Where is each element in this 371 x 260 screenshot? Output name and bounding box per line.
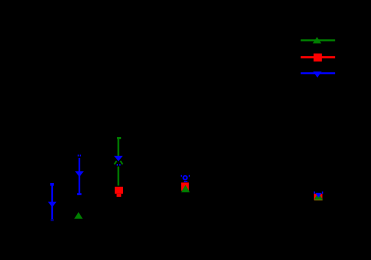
C red square marker bbox=[115, 187, 123, 194]
legend blue triangle-down marker bbox=[313, 72, 321, 78]
D blue x-cap right bbox=[189, 175, 190, 177]
C green bar upper segment bbox=[118, 139, 120, 156]
D red square marker bbox=[181, 183, 189, 191]
legend green line bbox=[301, 39, 335, 41]
legend blue line bbox=[301, 72, 335, 74]
C blue triangle-down marker bbox=[114, 156, 123, 161]
C blue dot left bbox=[117, 164, 118, 166]
C green top cap bbox=[117, 137, 121, 139]
C red stub below square bbox=[117, 194, 122, 197]
C green triangle-up left flank (partially hidden) bbox=[114, 161, 116, 164]
D blue bottom dash bbox=[184, 181, 188, 182]
E blue triangle-down marker bbox=[315, 193, 321, 198]
C green bar lower segment bbox=[118, 167, 120, 186]
A triangle-down marker bbox=[48, 202, 57, 207]
B bottom cap bbox=[77, 193, 81, 195]
B top cap dot right bbox=[80, 155, 81, 157]
E blue x-cap left bbox=[314, 192, 315, 194]
A vertical bar bbox=[51, 185, 53, 219]
C blue dot right bbox=[119, 164, 120, 166]
D blue ring marker bbox=[183, 176, 187, 180]
B top cap dot left bbox=[78, 155, 79, 157]
legend green triangle-up marker bbox=[313, 37, 322, 43]
E green triangle-up marker bbox=[314, 193, 323, 200]
E red square marker bbox=[314, 194, 323, 200]
D blue x-cap left bbox=[181, 175, 182, 177]
A bottom cap (faint) bbox=[51, 219, 54, 221]
B green triangle-up marker below bbox=[74, 212, 83, 219]
E olive mix line at bottom bbox=[314, 199, 322, 200]
legend red line bbox=[301, 56, 335, 58]
B triangle-down marker bbox=[75, 171, 84, 177]
B vertical bar bbox=[79, 158, 81, 194]
E blue x-cap right bbox=[322, 192, 323, 194]
C green triangle-up right flank (partially hidden) bbox=[120, 161, 122, 164]
A top cap bbox=[50, 183, 54, 186]
legend red square marker bbox=[314, 54, 322, 62]
D green triangle-up marker bbox=[181, 185, 190, 192]
